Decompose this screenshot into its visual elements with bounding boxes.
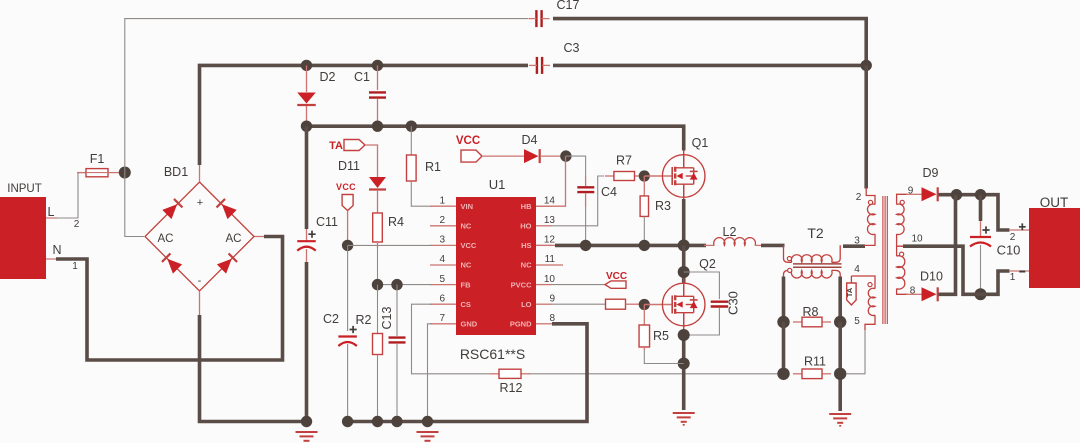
- input connector block: [0, 197, 46, 279]
- wire L from input to fuse: [46, 217, 57, 219]
- svg-text:INPUT: INPUT: [7, 183, 42, 195]
- wire Q1 source: [683, 184, 685, 200]
- svg-text:2: 2: [856, 192, 862, 203]
- svg-text:D4: D4: [522, 133, 538, 147]
- wire Q1 drain: [683, 150, 685, 168]
- svg-text:11: 11: [545, 254, 556, 265]
- svg-text:10: 10: [544, 274, 556, 285]
- svg-text:BD1: BD1: [164, 165, 188, 179]
- wire Q2 drain: [682, 245, 686, 283]
- svg-text:VCC: VCC: [336, 182, 356, 192]
- svg-text:U1: U1: [489, 177, 506, 192]
- junction dot R5 bottom: [678, 358, 690, 370]
- wire pin7 GND down: [428, 324, 433, 422]
- resistor R8: [793, 321, 802, 323]
- capacitor C1: [377, 65, 379, 90]
- transformer T2 secondary winding: [784, 270, 792, 277]
- wire F1 node down to bridge AC1: [125, 173, 144, 237]
- junction dot C10 bottom: [975, 288, 987, 300]
- wire C3 right to junction: [553, 64, 866, 68]
- junction dot VCC node: [342, 240, 353, 251]
- capacitor C10: [979, 195, 983, 221]
- svg-text:C13: C13: [380, 306, 394, 329]
- svg-text:CS: CS: [461, 300, 471, 309]
- svg-text:L: L: [48, 205, 55, 219]
- wire R8 left to R11 left: [782, 322, 786, 374]
- svg-text:4: 4: [854, 264, 860, 275]
- svg-text:D9: D9: [923, 166, 939, 180]
- wire D10 cathode riser: [939, 195, 956, 295]
- junction dot Q1 source: [678, 239, 690, 251]
- ground signal rail: [417, 431, 439, 433]
- svg-text:N: N: [52, 243, 61, 257]
- wire BD1 plus output up to HV bus: [199, 164, 201, 182]
- transistor Q1: [662, 155, 705, 198]
- junction dot C4 bottom: [580, 240, 591, 251]
- transistor Q2: [662, 283, 705, 326]
- wire BD1 minus to primary ground: [199, 291, 201, 316]
- output connector block: [1029, 208, 1080, 288]
- transformer aux winding pin4 to pin5: [851, 276, 875, 289]
- junction dot primary ground: [301, 416, 312, 427]
- wire T2 to main transformer pin3: [843, 244, 865, 248]
- junction dot R8 right: [834, 316, 846, 328]
- wire FB node: [373, 284, 432, 286]
- resistor Q2 gate: [606, 299, 626, 309]
- wire pin11 stub: [552, 264, 563, 266]
- fuse F1: [77, 172, 86, 174]
- resistor R2: [377, 285, 379, 334]
- inductor L2: [704, 244, 714, 246]
- capacitor C3: [536, 57, 538, 74]
- svg-text:R11: R11: [804, 355, 826, 369]
- svg-text:R3: R3: [655, 199, 671, 213]
- svg-text:C2: C2: [323, 312, 339, 326]
- svg-text:C30: C30: [726, 291, 741, 315]
- capacitor C13: [396, 285, 398, 336]
- resistor R3: [643, 176, 645, 196]
- transformer secondary winding pin10 to pin8: [896, 246, 898, 256]
- svg-text:12: 12: [544, 235, 556, 246]
- wire R12 to current sense node: [529, 373, 784, 375]
- svg-text:14: 14: [544, 195, 556, 206]
- junction dot F1 node: [119, 167, 131, 179]
- diode D10: [906, 293, 922, 295]
- svg-text:2: 2: [439, 215, 445, 226]
- wire D9 cathode to output plus: [939, 193, 995, 197]
- junction dot C10 top: [975, 189, 986, 200]
- svg-text:1: 1: [72, 261, 78, 272]
- junction dot C13 top: [391, 279, 402, 290]
- junction dot C1 top: [372, 60, 383, 71]
- svg-text:13: 13: [544, 215, 556, 226]
- svg-text:D10: D10: [920, 270, 943, 284]
- capacitor C30: [684, 272, 720, 299]
- diode D11: [369, 177, 386, 188]
- wire Q2 gate: [644, 304, 672, 306]
- junction dot C1 bottom: [372, 121, 383, 132]
- svg-text:HS: HS: [521, 241, 531, 250]
- signal tag TA on aux winding: [847, 283, 856, 305]
- junction dot R11 left: [777, 368, 789, 380]
- svg-text:R8: R8: [803, 305, 819, 319]
- svg-text:C11: C11: [316, 215, 338, 229]
- wire T2 secondary right down: [838, 277, 842, 323]
- wire Q2 source: [683, 313, 685, 331]
- wire pin6 CS to R12: [412, 304, 491, 374]
- svg-text:TA: TA: [329, 140, 343, 152]
- junction dot R3 bottom: [639, 240, 650, 251]
- resistor R11: [793, 373, 802, 375]
- wire down to T2 pin 2: [864, 65, 868, 188]
- diode D2: [306, 65, 308, 92]
- svg-text:5: 5: [854, 316, 860, 327]
- wire HB node to pin14: [536, 156, 566, 206]
- svg-text:Q2: Q2: [699, 257, 716, 271]
- svg-text:9: 9: [549, 293, 555, 304]
- svg-text:1: 1: [1010, 272, 1016, 283]
- svg-text:5: 5: [439, 274, 445, 285]
- svg-text:R12: R12: [500, 381, 523, 395]
- svg-text:C1: C1: [354, 70, 370, 84]
- svg-text:1: 1: [439, 195, 445, 206]
- junction dot HB node: [560, 150, 571, 161]
- svg-text:NC: NC: [521, 261, 532, 270]
- svg-text:L2: L2: [723, 225, 737, 239]
- svg-text:NC: NC: [461, 222, 472, 231]
- wire pin10 to output return: [903, 246, 976, 294]
- svg-text:NC: NC: [461, 261, 472, 270]
- svg-text:FB: FB: [461, 280, 472, 289]
- wire L2 to T2 primary: [761, 244, 785, 248]
- svg-text:4: 4: [439, 254, 445, 265]
- svg-text:2: 2: [74, 219, 80, 230]
- svg-text:VIN: VIN: [461, 202, 474, 211]
- wire pin9 LO to gate resistor: [552, 303, 606, 305]
- svg-text:C3: C3: [564, 41, 580, 55]
- junction dot rail C2: [342, 416, 353, 427]
- capacitor C17: [535, 10, 537, 27]
- svg-text:10: 10: [911, 234, 923, 245]
- wire pin8 PGND to ground rail: [344, 324, 587, 422]
- power tag VCC to PVCC: [552, 284, 605, 286]
- ground sense network: [829, 413, 851, 415]
- wire pin3 VCC: [348, 244, 432, 246]
- wire pin13 HO to R7: [552, 176, 604, 226]
- resistor R4: [373, 213, 383, 242]
- resistor R7: [605, 175, 614, 177]
- svg-text:AC: AC: [226, 233, 242, 245]
- resistor R1: [410, 126, 412, 155]
- resistor R12: [490, 373, 499, 375]
- wire output plus to OUT: [993, 195, 1010, 230]
- svg-text:D2: D2: [320, 70, 336, 84]
- svg-text:TA: TA: [845, 287, 854, 297]
- transformer T2 core: [793, 263, 842, 265]
- svg-text:VCC: VCC: [456, 135, 480, 147]
- svg-text:HO: HO: [520, 222, 531, 231]
- svg-text:+: +: [197, 197, 203, 209]
- svg-text:2: 2: [1010, 232, 1016, 243]
- wire HB node to C4: [566, 156, 586, 176]
- junction dot Q1 gate: [639, 170, 650, 181]
- junction dot D2 bottom: [301, 121, 312, 132]
- diode D9: [906, 193, 922, 195]
- junction dot C30 bottom: [678, 329, 690, 341]
- svg-text:RSC61**S: RSC61**S: [460, 346, 525, 362]
- svg-text:HB: HB: [521, 202, 532, 211]
- bridge rectifier BD1: [145, 165, 254, 291]
- svg-text:R5: R5: [653, 329, 669, 343]
- capacitor C11: [305, 126, 309, 229]
- resistor R5: [643, 305, 645, 326]
- junction dot R8 left: [777, 316, 789, 328]
- ground primary: [296, 431, 318, 433]
- wire N from input to bridge AC2: [46, 258, 57, 260]
- junction dot HV bus right: [861, 60, 872, 71]
- svg-text:3: 3: [439, 235, 445, 246]
- ground Q2 source: [673, 412, 695, 414]
- svg-text:PVCC: PVCC: [511, 280, 532, 289]
- wire HS switch node: [536, 244, 557, 246]
- wire output minus to OUT: [975, 271, 1010, 294]
- junction dot C30 top: [678, 266, 690, 278]
- svg-text:F1: F1: [90, 152, 105, 166]
- svg-text:C10: C10: [997, 243, 1021, 258]
- transformer secondary winding pin9 to pin10: [897, 194, 908, 204]
- svg-text:Q1: Q1: [692, 136, 709, 150]
- svg-text:C17: C17: [557, 0, 580, 12]
- capacitor C2: [347, 245, 349, 331]
- svg-text:T2: T2: [807, 225, 824, 241]
- junction dot R11 right: [834, 368, 846, 380]
- junction dot R1 top: [406, 121, 417, 132]
- junction dot rail C13: [391, 416, 402, 427]
- svg-text:3: 3: [854, 236, 860, 247]
- wire C17 right to transformer column: [553, 19, 866, 66]
- transformer T2 primary winding: [784, 245, 792, 262]
- svg-text:R2: R2: [356, 313, 372, 327]
- svg-text:-: -: [198, 275, 202, 287]
- svg-text:C4: C4: [601, 185, 617, 199]
- IC U1 RSC61**S: [456, 197, 536, 335]
- wire aux pin5 to R11: [846, 329, 865, 374]
- transformer primary winding pin2 to pin3: [866, 188, 875, 205]
- svg-text:LO: LO: [521, 300, 532, 309]
- svg-text:GND: GND: [461, 320, 478, 329]
- svg-text:AC: AC: [158, 233, 174, 245]
- svg-text:R4: R4: [388, 215, 404, 229]
- junction dot rail GND: [422, 416, 433, 427]
- svg-text:R7: R7: [616, 154, 632, 168]
- wire Q1 gate: [644, 175, 672, 177]
- wire R8 right to R11 right: [838, 322, 842, 411]
- junction dot D10 riser top: [951, 189, 962, 200]
- svg-text:R1: R1: [425, 160, 441, 174]
- capacitor C4: [585, 176, 587, 186]
- svg-text:VCC: VCC: [461, 241, 477, 250]
- junction dot R2 top: [372, 279, 383, 290]
- wire F1 node up to C17: [125, 19, 528, 173]
- junction dot rail R2: [372, 416, 383, 427]
- junction dot D2 top: [301, 60, 312, 71]
- transformer core: [882, 196, 884, 324]
- svg-text:PGND: PGND: [510, 320, 532, 329]
- junction dot Q2 gate: [639, 299, 650, 310]
- wire secondary HV bus y126: [301, 126, 684, 150]
- wire T2 secondary left down: [782, 277, 786, 323]
- svg-text:OUT: OUT: [1040, 195, 1069, 210]
- diode D4: [524, 149, 539, 163]
- svg-text:D11: D11: [338, 159, 360, 173]
- svg-text:7: 7: [439, 313, 445, 324]
- svg-text:6: 6: [439, 293, 445, 304]
